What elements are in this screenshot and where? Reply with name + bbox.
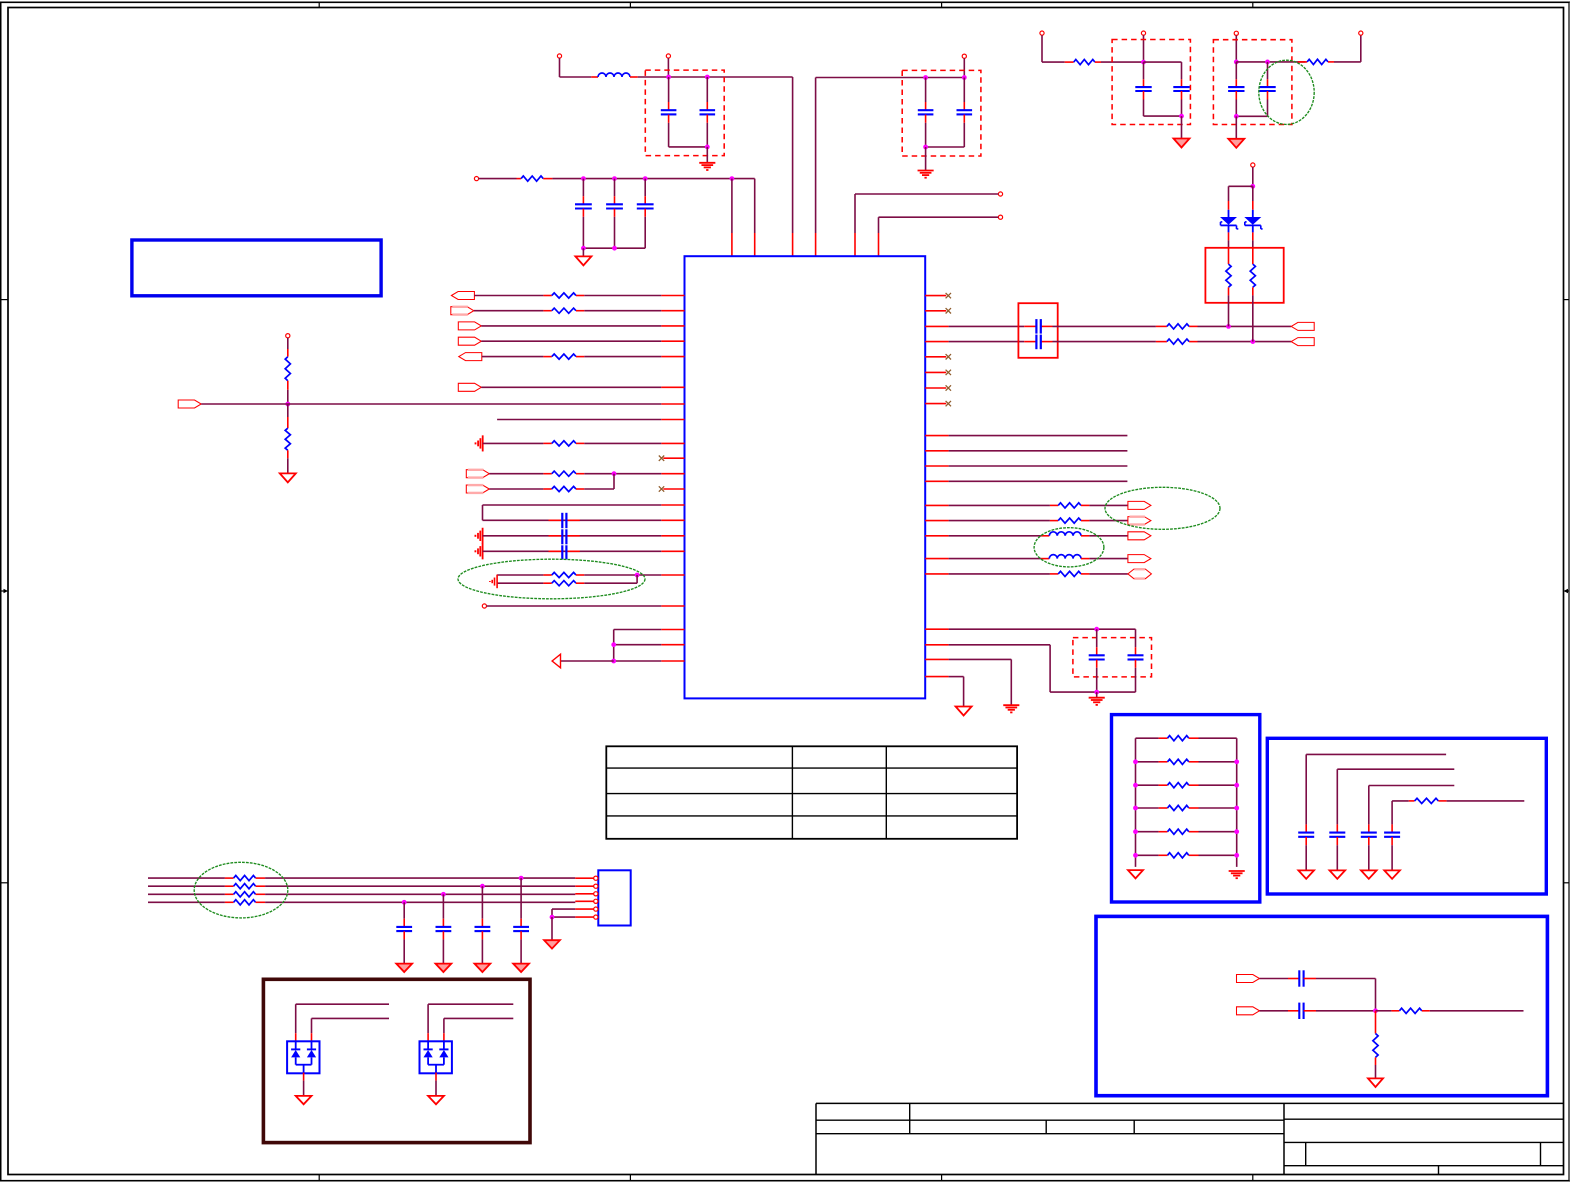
capacitor C1 — [668, 77, 670, 102]
junction — [1141, 60, 1146, 65]
wire — [1252, 167, 1254, 186]
ground GND11 — [956, 707, 972, 716]
junction — [612, 176, 617, 181]
U1 left pin 6 — [661, 386, 684, 388]
wire — [949, 341, 1025, 343]
wire — [1235, 116, 1237, 138]
U1 right pin RX1 — [925, 520, 948, 522]
junction — [612, 246, 617, 251]
port IN7 — [466, 470, 489, 478]
junction — [1234, 60, 1239, 65]
terminal P2 — [666, 54, 670, 58]
resistor R12 — [1156, 325, 1167, 327]
ground GND19 — [1384, 870, 1400, 878]
wire TVS2 line1 — [428, 1003, 513, 1005]
wire — [613, 474, 615, 489]
junction — [666, 75, 671, 80]
junction — [611, 659, 616, 664]
diode D1 schottky — [1228, 201, 1230, 210]
wire TVS2 lead2 — [443, 1018, 445, 1033]
wire — [483, 504, 662, 506]
wire — [1306, 753, 1446, 755]
U1 right pin VSS2 — [925, 676, 948, 678]
wire — [949, 676, 964, 678]
port IN6 — [178, 400, 201, 408]
terminal P12 — [1359, 31, 1363, 35]
U1 right pin bus 2 — [925, 450, 948, 452]
wire — [1053, 341, 1156, 343]
wire — [481, 325, 661, 327]
port XOUT — [1291, 322, 1314, 330]
wire — [963, 58, 965, 77]
junction — [1234, 829, 1239, 834]
right center arrow marker — [1567, 590, 1570, 592]
diode D6 — [439, 1048, 448, 1050]
wire — [303, 1073, 305, 1081]
junction — [285, 402, 290, 407]
resistor R32 — [225, 893, 234, 895]
wire — [949, 658, 1012, 660]
wire — [552, 916, 575, 918]
junction — [1250, 339, 1255, 344]
capacitor C13 — [1267, 62, 1269, 79]
wire — [1143, 35, 1145, 62]
TVS array U3 body — [420, 1041, 452, 1073]
U1 left pin 12 no-connect — [663, 488, 684, 490]
ground GND7 sideways — [482, 543, 484, 559]
capacitor C9 — [1135, 629, 1137, 647]
crystal Y2 box — [1018, 303, 1057, 358]
junction — [581, 246, 586, 251]
junction — [962, 75, 967, 80]
ground GND8 sideways — [496, 575, 498, 589]
U1 right pin bus 4 — [925, 480, 948, 482]
ground GND13 — [1228, 139, 1244, 148]
junction — [1226, 324, 1231, 329]
junction — [705, 145, 710, 150]
wire — [1144, 115, 1182, 117]
ground GND24 — [396, 964, 412, 972]
wire — [561, 660, 614, 662]
top zone tick 2 — [629, 2, 631, 8]
resistor R14 — [949, 504, 1050, 506]
U1 left pin 18 — [661, 605, 684, 607]
resistor R7 — [483, 442, 544, 444]
U1 left pin 19 — [661, 629, 684, 631]
junction — [519, 876, 524, 881]
wire — [559, 58, 561, 77]
U1 left pin 20 — [661, 644, 684, 646]
wire — [1041, 35, 1043, 62]
ground GND26 — [296, 1096, 312, 1104]
U1 right pin 3 XTAL1 — [925, 325, 948, 327]
port IN3 — [458, 322, 481, 330]
capacitor C6 — [614, 179, 616, 197]
resistor R13 — [1156, 341, 1167, 343]
wire — [925, 147, 927, 170]
wire — [482, 505, 484, 520]
terminal P5 — [998, 215, 1002, 219]
junction — [1234, 759, 1239, 764]
wire — [497, 419, 661, 421]
junction — [1234, 783, 1239, 788]
left center arrow marker — [1, 590, 5, 592]
wire to U1 pin — [731, 179, 733, 233]
U1 left pin 21 — [661, 660, 684, 662]
wire — [551, 917, 553, 940]
wire — [926, 146, 965, 148]
connector J1 pin 5 — [575, 908, 593, 910]
wire — [481, 386, 661, 388]
ground GND20 — [1368, 1078, 1383, 1087]
resistor R11 — [497, 582, 543, 584]
resistor R28 — [1391, 1010, 1399, 1012]
wire — [583, 247, 645, 249]
wire — [669, 146, 708, 148]
U1 left pin 10 no-connect — [663, 457, 684, 459]
junction — [402, 900, 407, 905]
U1 right pin IO — [925, 573, 948, 575]
dashed group box — [645, 70, 724, 156]
wire — [667, 58, 669, 77]
ground GND25 — [544, 940, 560, 948]
U1 right pin VDD1 — [925, 628, 948, 630]
wire TVS1 line1 — [296, 1003, 389, 1005]
wire — [949, 628, 1136, 630]
junction — [1373, 1008, 1378, 1013]
wire — [483, 535, 662, 537]
resistor R19 — [1228, 248, 1230, 264]
wire — [1253, 341, 1291, 343]
diode D4 — [307, 1048, 316, 1050]
U1 right pin CANL — [925, 558, 948, 560]
ellipse highlight — [1034, 528, 1104, 567]
resistor R31 — [225, 885, 234, 887]
resistor R17 — [1065, 61, 1074, 63]
ground GND22 — [475, 964, 491, 972]
terminal P8 — [482, 604, 486, 608]
wire — [1229, 185, 1253, 187]
terminal P13 — [1251, 163, 1255, 167]
U1 right pin bus 1 — [925, 435, 948, 437]
port IN1 — [451, 292, 474, 300]
bottom zone tick 4 — [1252, 1175, 1254, 1182]
port IN5 — [458, 383, 481, 391]
junction — [1094, 690, 1099, 695]
capacitor C23 — [403, 902, 405, 918]
IC U1 body — [685, 256, 926, 698]
resistor R33 — [225, 901, 234, 903]
wire — [1337, 768, 1454, 770]
U1 left pin 8 — [661, 419, 684, 421]
wire left rail — [1135, 738, 1137, 867]
left zone tick 2 — [1, 882, 8, 884]
wire — [1050, 691, 1135, 693]
resistor R24 — [1136, 807, 1159, 809]
port FIN2 — [1237, 1007, 1260, 1015]
wire — [614, 629, 662, 631]
junction — [581, 176, 586, 181]
wire — [265, 893, 443, 895]
U1 left pin 5 — [661, 356, 684, 358]
ground GND2 — [918, 170, 934, 172]
U1 left pin 13 — [661, 504, 684, 506]
ground GND17 — [1330, 870, 1346, 878]
resistor R4 — [474, 295, 543, 297]
junction — [1250, 184, 1255, 189]
top zone tick 3 — [941, 2, 943, 8]
U1 left pin 7 — [661, 403, 684, 405]
ground GND16 — [1298, 870, 1314, 878]
wire — [552, 908, 575, 910]
U1 right pin no-connect 6 — [925, 403, 946, 405]
capacitor C21 — [481, 886, 483, 919]
resistor R26 — [1136, 854, 1159, 856]
dashed group box — [1073, 638, 1152, 677]
resistor R6 — [482, 356, 544, 358]
wire common — [428, 1064, 444, 1066]
resistor R18 — [1298, 61, 1307, 63]
wire — [265, 901, 404, 903]
bottom zone tick 3 — [941, 1175, 943, 1182]
wire VDD-A rail — [638, 76, 793, 78]
wire — [614, 660, 662, 662]
TVS array U2 body — [287, 1041, 319, 1073]
group box cap bank — [1267, 738, 1546, 894]
wire TVS2 line2 — [444, 1017, 513, 1019]
top zone tick 4 — [1252, 2, 1254, 8]
diode D3 — [291, 1048, 300, 1050]
junction — [1234, 806, 1239, 811]
U1 right pin bus 3 — [925, 465, 948, 467]
terminal P9 — [1040, 31, 1044, 35]
U1 left pin 9 — [661, 442, 684, 444]
junction — [612, 471, 617, 476]
wire TVS1 line2 — [312, 1017, 390, 1019]
wire — [1316, 978, 1376, 980]
wire — [1101, 61, 1144, 63]
wire — [435, 1073, 437, 1081]
ground GND5 sideways — [482, 435, 484, 451]
resistor R15 — [949, 520, 1050, 522]
resistor R16 — [949, 573, 1050, 575]
capacitor C4 — [963, 78, 965, 103]
harness wire 2 — [148, 885, 225, 887]
ground GND4 — [280, 473, 296, 482]
terminal P4 — [998, 192, 1002, 196]
ground GND18 — [1361, 870, 1377, 878]
inductor L2 — [949, 535, 1041, 537]
junction — [611, 642, 616, 647]
junction — [1234, 114, 1239, 119]
wire — [1369, 785, 1455, 787]
harness wire 4 — [148, 901, 225, 903]
connector J1 pin 1 — [575, 877, 593, 879]
ground GND14 — [1128, 870, 1143, 878]
wire — [481, 340, 661, 342]
resistor R1 — [479, 178, 517, 180]
port RXD — [1128, 517, 1151, 525]
wire — [1334, 61, 1361, 63]
wire — [1316, 1010, 1376, 1012]
junction — [1179, 114, 1184, 119]
ground GND23 — [436, 964, 452, 972]
junction — [1094, 627, 1099, 632]
resistor R8 — [489, 473, 543, 475]
group box resistor bank — [1112, 715, 1260, 902]
port BIDIR — [1128, 569, 1152, 579]
connector J1 pin 6 — [575, 916, 593, 918]
wire TVS2 lead1 — [427, 1004, 429, 1033]
junction — [923, 75, 928, 80]
wire — [879, 216, 999, 218]
left zone tick 1 — [1, 299, 8, 301]
port TXD — [1128, 501, 1151, 509]
capacitor C22 — [442, 894, 444, 918]
ellipse highlight — [1259, 60, 1314, 124]
capacitor C3 — [925, 78, 927, 103]
wire TVS1 lead1 — [295, 1004, 297, 1033]
connector J1 pin 4 — [575, 900, 593, 902]
capacitor C12 — [1235, 62, 1237, 79]
port XIN — [1291, 338, 1314, 346]
annotation box — [132, 240, 381, 296]
connector J1 pin 3 — [575, 893, 593, 895]
ground GND12 — [1174, 139, 1190, 148]
junction — [923, 145, 928, 150]
port IN2 — [451, 307, 474, 315]
wire rail — [552, 178, 754, 180]
resistor R23 — [1136, 784, 1159, 786]
wire to U1 pin — [815, 78, 817, 234]
capacitor C16 — [1368, 824, 1370, 832]
connector J1 pin 2 — [575, 885, 593, 887]
capacitor C2 — [706, 77, 708, 102]
resistor R2 — [287, 338, 289, 349]
group box — [1205, 248, 1283, 303]
port OUT1 — [459, 353, 482, 361]
resistor R27 — [1391, 801, 1393, 825]
ground GND1 — [699, 162, 715, 164]
inductor L1 — [591, 76, 598, 78]
capacitor C20 — [520, 878, 522, 919]
junction — [1133, 759, 1138, 764]
wire — [613, 630, 615, 662]
capacitor C18 — [1260, 978, 1289, 980]
U1 right pin no-connect 5 — [925, 387, 946, 389]
junction — [1133, 806, 1138, 811]
wire — [637, 574, 661, 576]
junction — [1265, 60, 1270, 65]
U1 left pin 4 — [661, 340, 684, 342]
U1 left pin 15 — [661, 535, 684, 537]
bottom zone tick 1 — [318, 1175, 320, 1182]
ground GND15 — [1229, 870, 1245, 872]
capacitor C8 — [1096, 629, 1098, 647]
resistor R30 — [225, 877, 234, 879]
resistor R21 — [1136, 737, 1159, 739]
resistor R29 — [1375, 1011, 1377, 1034]
group box TVS — [263, 979, 530, 1142]
connector J1 body — [598, 870, 630, 925]
ground GND27 — [428, 1096, 444, 1104]
harness wire 1 — [148, 877, 225, 879]
junction — [1234, 853, 1239, 858]
ground GND6 sideways — [482, 528, 484, 544]
terminal P10 — [1141, 31, 1145, 35]
wire — [1053, 325, 1156, 327]
right zone tick 2 — [1564, 882, 1570, 884]
crystal Y1 plates — [549, 519, 563, 521]
U1 right pin CANH — [925, 535, 948, 537]
resistor R10 — [497, 574, 543, 576]
ground GND3 — [575, 256, 591, 265]
resistor R22 — [1136, 761, 1159, 763]
ellipse highlight — [194, 862, 288, 918]
top zone tick 1 — [318, 2, 320, 8]
wire — [1181, 116, 1183, 138]
notes table — [606, 746, 1017, 839]
port CANL — [1128, 555, 1151, 563]
port IN4 — [458, 337, 481, 345]
dashed group box — [1213, 40, 1292, 125]
U1 left pin 3 — [661, 325, 684, 327]
junction — [705, 75, 710, 80]
wire — [1235, 35, 1237, 62]
ellipse highlight — [1105, 487, 1220, 529]
U1 right pin 2 no-connect — [925, 310, 946, 312]
port IN8 — [466, 485, 489, 493]
wire — [487, 605, 662, 607]
dashed group box — [1112, 40, 1190, 125]
wire — [1236, 115, 1267, 117]
U1 right pin TX1 — [925, 504, 948, 506]
diode D2 schottky — [1252, 201, 1254, 210]
capacitor C7 — [644, 179, 646, 197]
capacitor C15 — [1336, 824, 1338, 832]
U1 left pin 11 — [661, 473, 684, 475]
resistor R5 — [474, 310, 544, 312]
wire — [582, 248, 584, 256]
wire — [1252, 186, 1254, 201]
junction — [441, 892, 446, 897]
wire — [636, 575, 638, 583]
terminal P1 — [557, 54, 561, 58]
wire — [855, 193, 998, 195]
U1 right pin 4 XTAL2 — [925, 341, 948, 343]
terminal P7 — [286, 334, 290, 338]
port OUT2 open arrow — [552, 654, 560, 668]
resistor R3 — [287, 404, 289, 417]
group box filter — [1096, 916, 1547, 1095]
junction — [480, 884, 485, 889]
terminal P6 — [474, 177, 478, 181]
wire — [265, 885, 482, 887]
wire — [1096, 692, 1098, 697]
capacitor C14 — [1305, 824, 1307, 832]
wire — [483, 550, 662, 552]
U1 right pin no-connect 4 — [925, 371, 946, 373]
terminal P11 — [1234, 31, 1238, 35]
dashed group box — [902, 70, 981, 156]
resistor R25 — [1136, 831, 1159, 833]
wire — [265, 877, 521, 879]
inductor L3 — [949, 558, 1041, 560]
U1 right pin 1 no-connect — [925, 295, 946, 297]
title block — [816, 1102, 1564, 1104]
capacitor C17 — [1391, 824, 1393, 832]
terminal P3 — [962, 54, 966, 58]
